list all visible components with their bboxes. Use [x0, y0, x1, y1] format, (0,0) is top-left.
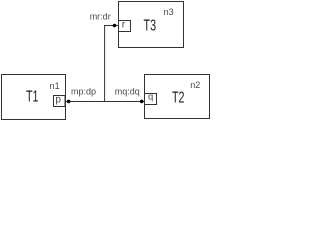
svg-text:n1: n1	[50, 81, 60, 91]
svg-text:T3: T3	[144, 18, 157, 35]
svg-text:T1: T1	[26, 89, 39, 106]
svg-text:q: q	[148, 92, 153, 103]
junction dot at p	[67, 100, 71, 104]
component T1	[2, 75, 66, 120]
component T2	[145, 75, 210, 119]
svg-text:mr:dr: mr:dr	[90, 12, 111, 22]
wire p-q	[66, 101, 145, 103]
svg-text:p: p	[55, 94, 61, 105]
junction dot at r	[113, 24, 117, 28]
svg-text:T2: T2	[172, 90, 185, 107]
svg-text:mp:dp: mp:dp	[71, 87, 96, 97]
port r	[119, 21, 131, 32]
wire to r	[104, 25, 118, 27]
component T3	[119, 2, 184, 48]
svg-text:mq:dq: mq:dq	[115, 87, 140, 97]
wire branch vertical	[104, 26, 106, 102]
port q	[145, 94, 157, 105]
junction dot at q	[140, 100, 144, 104]
port p	[54, 96, 66, 107]
svg-text:n2: n2	[190, 80, 200, 90]
svg-text:n3: n3	[164, 7, 174, 17]
